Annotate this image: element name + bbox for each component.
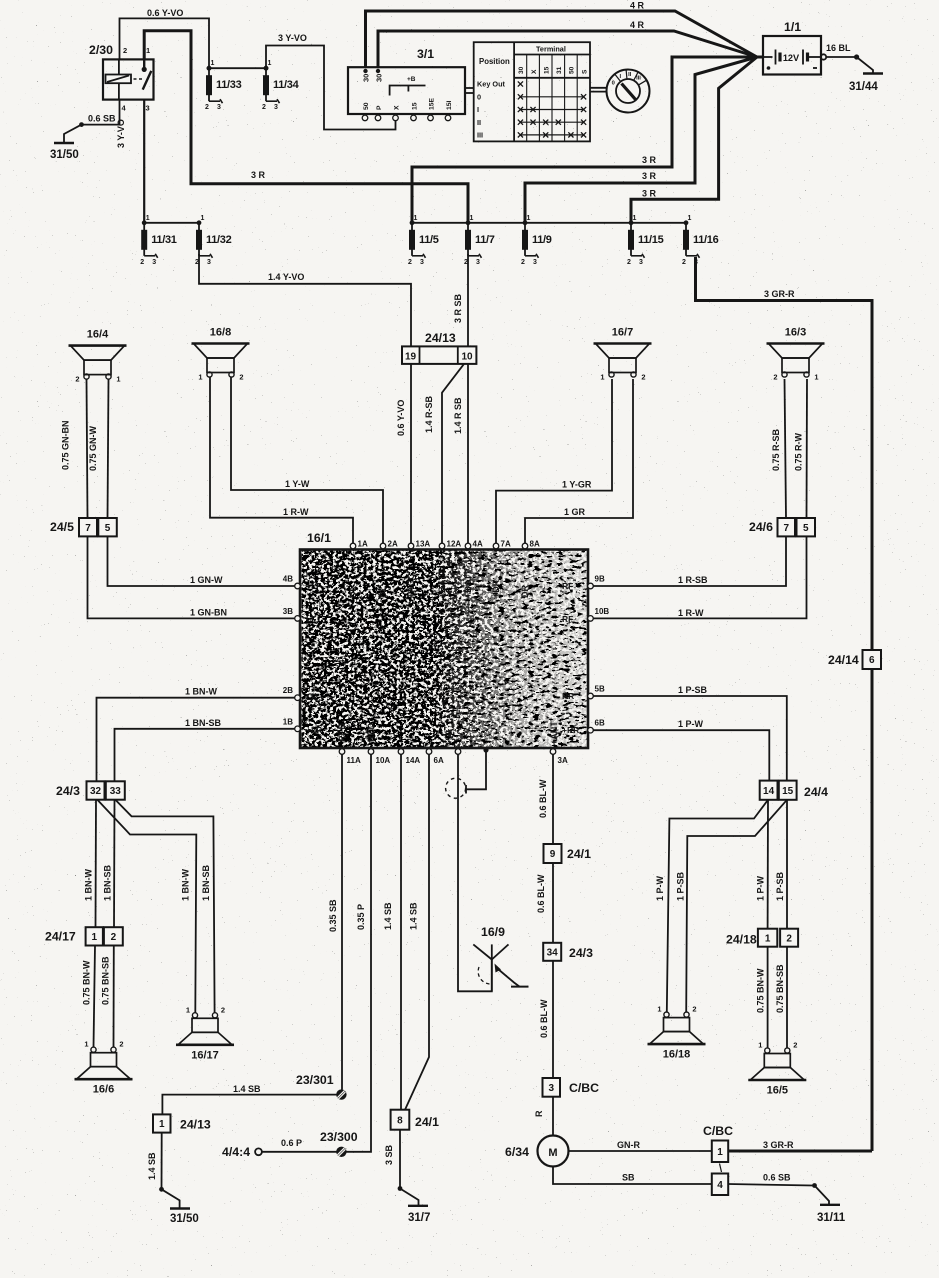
- svg-text:+BATT: +BATT: [463, 569, 473, 598]
- wire 1 P-SB radio 5B to connector 24/4 pin15: [591, 696, 787, 781]
- svg-text:15I: 15I: [446, 100, 453, 110]
- svg-text:0.6 Y-VO: 0.6 Y-VO: [396, 400, 406, 436]
- svg-text:10A: 10A: [376, 756, 391, 765]
- wire 1 BN-SB radio 1B to connector 24/3 pin33: [115, 729, 298, 782]
- svg-text:3 R: 3 R: [251, 170, 266, 180]
- wire GN-R motor 6/34 to C/BC pin1: [568, 1150, 712, 1152]
- svg-text:3: 3: [548, 1083, 554, 1094]
- svg-text:5B: 5B: [595, 685, 605, 694]
- svg-text:11/31: 11/31: [151, 234, 177, 246]
- svg-text:1/1: 1/1: [784, 20, 801, 34]
- wire 1 GR speaker 16/7 pin2 to radio 8A: [525, 379, 633, 546]
- svg-text:15: 15: [782, 786, 794, 797]
- svg-text:15E: 15E: [429, 97, 436, 110]
- svg-text:3 SB: 3 SB: [384, 1144, 394, 1165]
- fuse 11/9: [521, 215, 552, 266]
- wire 0.75 R-SB speaker 16/3 pin2 to connector 24/6 pin7: [785, 379, 787, 518]
- svg-text:3: 3: [274, 104, 278, 111]
- svg-text:30: 30: [362, 74, 371, 82]
- svg-text:7A: 7A: [501, 540, 511, 549]
- svg-text:X: X: [394, 105, 401, 110]
- svg-text:3 R: 3 R: [642, 189, 657, 199]
- svg-text:7: 7: [85, 523, 91, 534]
- svg-text:1: 1: [688, 215, 692, 222]
- svg-text:+ANT: +ANT: [549, 721, 559, 745]
- svg-text:RED: RED: [366, 722, 376, 742]
- svg-text:1.4 SB: 1.4 SB: [383, 902, 393, 930]
- wire 1 BN-W connector 24/3 pin32 branch to speaker 16/17 pin1: [97, 799, 196, 1012]
- svg-text:24/18: 24/18: [726, 933, 757, 947]
- svg-text:31/11: 31/11: [817, 1212, 846, 1224]
- ground 31/44: [863, 72, 883, 74]
- svg-text:1: 1: [527, 215, 531, 222]
- svg-text:3: 3: [217, 104, 221, 111]
- svg-text:16/9: 16/9: [481, 925, 505, 939]
- wire 1.4 Y-VO fuse 11/32 to radio pin 13A: [199, 254, 411, 346]
- svg-text:1: 1: [146, 46, 150, 55]
- svg-text:3 R: 3 R: [642, 171, 657, 181]
- svg-text:2: 2: [123, 46, 127, 55]
- wire 0.75 R-W speaker 16/3 pin1 to connector 24/6 pin5: [806, 379, 809, 518]
- svg-text:11/7: 11/7: [475, 234, 495, 246]
- svg-text:1.4 SB: 1.4 SB: [147, 1152, 157, 1180]
- svg-text:5: 5: [803, 523, 809, 534]
- svg-text:12V: 12V: [783, 53, 800, 63]
- svg-text:11/5: 11/5: [419, 234, 439, 246]
- svg-text:III: III: [477, 131, 483, 140]
- svg-text:0.6 BL-W: 0.6 BL-W: [539, 999, 549, 1038]
- wire 1 Y-W speaker 16/8 pin2 to radio 2A: [231, 377, 383, 546]
- svg-text:+LF: +LF: [306, 581, 321, 591]
- thick wire 4 R battery to ignition 3/1 pin30 b: [378, 31, 757, 67]
- svg-text:0.75 BN-SB: 0.75 BN-SB: [775, 964, 785, 1013]
- wire fuse 11/31 to 11/32 pin1: [144, 222, 199, 224]
- svg-text:0.75 BN-W: 0.75 BN-W: [756, 968, 766, 1013]
- thick wire 3 R battery to fuse 11/5: [412, 57, 763, 223]
- svg-text:4B: 4B: [283, 575, 293, 584]
- svg-text:1 BN-W: 1 BN-W: [84, 868, 94, 901]
- svg-text:24/1: 24/1: [415, 1115, 439, 1129]
- svg-text:16/4: 16/4: [87, 329, 109, 341]
- svg-text:31: 31: [556, 66, 563, 74]
- svg-text:3: 3: [152, 259, 156, 266]
- svg-text:0.75 BN-W: 0.75 BN-W: [82, 960, 92, 1005]
- wire 0.6 Y-VO connector 24/13 pin19 to radio 13A: [410, 364, 412, 546]
- wire 3 GR-R fuse 11/16 down right side to C/BC: [696, 257, 873, 1151]
- wire 1 R-SB connector 24/6 pin7 to radio 9B: [591, 536, 786, 586]
- svg-text:24/13: 24/13: [425, 331, 456, 345]
- svg-text:3A: 3A: [558, 756, 568, 765]
- svg-text:DL: DL: [348, 586, 358, 598]
- wire 1 P-W connector 24/4 pin14 branch to speaker 16/18 pin1: [667, 800, 768, 1012]
- svg-text:1: 1: [657, 1005, 661, 1014]
- svg-text:0: 0: [612, 81, 615, 87]
- svg-text:4 R: 4 R: [630, 20, 645, 30]
- svg-text:1: 1: [159, 1119, 165, 1130]
- svg-text:1 BN-SB: 1 BN-SB: [103, 864, 113, 901]
- fuse 11/31: [140, 215, 177, 266]
- svg-text:33: 33: [110, 786, 122, 797]
- svg-text:24/3: 24/3: [569, 946, 593, 960]
- svg-text:1 P-W: 1 P-W: [655, 875, 665, 901]
- wire radio to antenna connector stub: [466, 750, 486, 789]
- svg-text:15: 15: [544, 66, 551, 74]
- svg-text:2/30: 2/30: [89, 43, 113, 57]
- svg-text:3 GR-R: 3 GR-R: [764, 289, 795, 299]
- wire 1 BN-SB connector 24/3 pin33 to 24/17 pin2: [113, 799, 116, 927]
- svg-text:3: 3: [533, 259, 537, 266]
- svg-text:1: 1: [600, 373, 604, 382]
- ignition key symbol: [590, 70, 650, 113]
- svg-text:16/1: 16/1: [307, 531, 331, 545]
- wire 1.4 SB radio 6A to connector 24/1 pin8: [405, 752, 429, 1110]
- svg-text:6B: 6B: [595, 719, 605, 728]
- svg-text:12A: 12A: [447, 540, 462, 549]
- wire 0.75 BN-W connector 24/18 pin1 to speaker 16/5 pin1: [767, 947, 769, 1048]
- thick wire 3 R battery to fuse 11/9: [525, 57, 757, 223]
- thick wire 3 R battery to fuse 11/15: [631, 57, 757, 223]
- svg-text:3: 3: [146, 104, 150, 113]
- svg-text:GN-R: GN-R: [617, 1140, 640, 1150]
- svg-text:2B: 2B: [283, 686, 293, 695]
- svg-text:LF: LF: [306, 614, 316, 624]
- optional connector dashed circle: [446, 778, 466, 798]
- ground 31/7: [408, 1205, 428, 1207]
- svg-text:24/4: 24/4: [804, 785, 828, 799]
- svg-text:32: 32: [90, 786, 102, 797]
- svg-text:11/33: 11/33: [216, 79, 242, 91]
- svg-text:4A: 4A: [473, 540, 483, 549]
- svg-text:1: 1: [470, 215, 474, 222]
- svg-text:19: 19: [405, 352, 417, 363]
- svg-text:+RR: +RR: [562, 725, 579, 735]
- svg-text:1: 1: [116, 375, 120, 384]
- svg-text:3 R: 3 R: [642, 155, 657, 165]
- relay 2/30: [89, 43, 154, 113]
- speaker 16/3: [767, 327, 825, 382]
- svg-text:4 R: 4 R: [630, 1, 645, 11]
- svg-text:24/1: 24/1: [567, 847, 591, 861]
- wire 3 SB connector 24/1 pin8 to ground 31/7: [399, 1130, 401, 1189]
- fuse 11/34: [262, 60, 300, 111]
- svg-text:2: 2: [641, 373, 645, 382]
- svg-text:10B: 10B: [595, 607, 610, 616]
- svg-text:23/301: 23/301: [296, 1073, 334, 1087]
- speaker 16/4: [69, 329, 127, 384]
- svg-text:15: 15: [412, 102, 419, 110]
- wire 0.75 BN-SB connector 24/17 pin2 to speaker 16/6 pin2: [113, 946, 115, 1048]
- svg-text:1A: 1A: [358, 540, 368, 549]
- svg-text:1.4 SB: 1.4 SB: [233, 1084, 261, 1094]
- svg-text:3B: 3B: [283, 607, 293, 616]
- wire 1.4 R SB connector 24/13 pin10 to radio 4A: [467, 364, 469, 546]
- svg-text:5: 5: [105, 523, 111, 534]
- svg-text:24/13: 24/13: [180, 1118, 211, 1132]
- wire 1.4 SB connector 24/13 to ground 31/50: [161, 1133, 163, 1190]
- wire 3 Y-VO relay pin3 down to fuse 11/31: [143, 100, 145, 223]
- svg-text:C/BC: C/BC: [569, 1081, 599, 1095]
- thick wire 4 R battery to ignition 3/1 pin30 a: [366, 11, 758, 67]
- svg-text:0.6 BL-W: 0.6 BL-W: [538, 779, 548, 818]
- svg-text:R: R: [534, 1110, 544, 1117]
- svg-text:1 Y-GR: 1 Y-GR: [562, 480, 592, 490]
- svg-text:2: 2: [521, 259, 525, 266]
- svg-text:1 Y-W: 1 Y-W: [285, 479, 310, 489]
- svg-text:1 BN-W: 1 BN-W: [181, 868, 191, 901]
- svg-text:1 BN-W: 1 BN-W: [185, 687, 218, 697]
- svg-text:1: 1: [146, 215, 150, 222]
- svg-text:16/18: 16/18: [663, 1049, 691, 1061]
- svg-text:24/6: 24/6: [749, 520, 773, 534]
- svg-text:P: P: [376, 105, 383, 110]
- svg-text:1 GR: 1 GR: [564, 507, 586, 517]
- svg-text:11/16: 11/16: [693, 234, 719, 246]
- svg-text:16/8: 16/8: [210, 327, 231, 339]
- svg-text:11/9: 11/9: [532, 234, 552, 246]
- svg-text:1: 1: [414, 215, 418, 222]
- wire 1.4 SB splice 23/301 to connector 24/13 pin1: [162, 1095, 336, 1115]
- svg-text:RF: RF: [562, 614, 573, 624]
- svg-text:9B: 9B: [595, 575, 605, 584]
- svg-text:0.75 GN-BN: 0.75 GN-BN: [61, 420, 71, 470]
- svg-text:1 BN-SB: 1 BN-SB: [185, 718, 222, 728]
- motor 6/34: [505, 1136, 569, 1167]
- svg-text:24/17: 24/17: [45, 930, 76, 944]
- svg-text:Position: Position: [479, 57, 510, 66]
- svg-text:0.6 P: 0.6 P: [281, 1138, 302, 1148]
- svg-text:0.75 GN-W: 0.75 GN-W: [88, 425, 98, 471]
- svg-text:31/7: 31/7: [408, 1212, 430, 1224]
- wire 0.6 BL-W radio 3A to connector 24/1 pin9: [552, 752, 554, 844]
- svg-text:11/34: 11/34: [273, 79, 300, 91]
- fuse 11/32: [195, 215, 232, 266]
- fuse 11/16: [682, 215, 719, 266]
- svg-text:2: 2: [627, 259, 631, 266]
- wire 1.4 SB radio 14A to connector 24/1 pin8: [400, 752, 402, 1110]
- svg-text:31/44: 31/44: [849, 81, 878, 93]
- svg-text:Terminal: Terminal: [536, 45, 566, 54]
- svg-text:1 P-SB: 1 P-SB: [676, 871, 686, 901]
- svg-text:1: 1: [765, 933, 771, 944]
- svg-text:4: 4: [717, 1180, 723, 1191]
- svg-text:M: M: [548, 1147, 557, 1159]
- svg-text:3: 3: [207, 259, 211, 266]
- svg-text:I: I: [477, 105, 479, 114]
- antenna 16/9: [473, 925, 528, 991]
- svg-text:Key Out: Key Out: [477, 80, 506, 89]
- wire R C/BC pin3 to motor 6/34: [552, 1097, 554, 1136]
- svg-text:24/3: 24/3: [56, 784, 80, 798]
- splice 23/301: [336, 1089, 346, 1099]
- speaker 16/8: [192, 327, 250, 382]
- wire 1 P-W radio 6B to connector 24/4 pin14: [591, 730, 769, 780]
- wire 0.35 SB radio 11A to splice 23/301: [341, 752, 343, 1090]
- svg-text:2: 2: [75, 375, 79, 384]
- wire 1 BN-W connector 24/3 pin32 to 24/17 pin1: [95, 799, 98, 927]
- svg-text:6A: 6A: [434, 756, 444, 765]
- wire 0.6 BL-W connector 24/3 pin34 to C/BC pin3: [552, 961, 554, 1078]
- svg-text:DR: DR: [520, 585, 530, 598]
- svg-text:1: 1: [268, 60, 272, 67]
- svg-text:1: 1: [201, 215, 205, 222]
- svg-text:3: 3: [639, 259, 643, 266]
- svg-text:S: S: [581, 69, 588, 74]
- svg-text:31/50: 31/50: [170, 1213, 199, 1225]
- svg-text:14A: 14A: [406, 756, 421, 765]
- svg-text:0.75 BN-SB: 0.75 BN-SB: [101, 956, 111, 1005]
- svg-text:0.75 R-SB: 0.75 R-SB: [771, 428, 781, 471]
- svg-text:6/34: 6/34: [505, 1145, 529, 1159]
- wire 3 R SB fuse 11/7 to connector 24/13 pin10: [467, 254, 469, 346]
- svg-text:1B: 1B: [283, 717, 293, 726]
- svg-text:2: 2: [195, 259, 199, 266]
- svg-text:3 R SB: 3 R SB: [453, 293, 463, 323]
- svg-text:0.6 SB: 0.6 SB: [88, 114, 116, 124]
- svg-text:+B: +B: [407, 76, 416, 83]
- wire 1 Y-GR speaker 16/7 pin1 to radio 7A: [496, 379, 612, 546]
- wire 1 GN-BN connector 24/5 pin7 to radio 3B: [88, 536, 298, 618]
- ignition position table: [474, 42, 590, 141]
- wire 0.6 Y-VO relay pin2 to fuse 11/33: [120, 18, 210, 68]
- svg-text:1: 1: [633, 215, 637, 222]
- ground 31/50 bottom: [170, 1207, 190, 1209]
- svg-text:0.35 SB: 0.35 SB: [328, 899, 338, 932]
- svg-text:9: 9: [550, 849, 556, 860]
- fuse 11/7: [464, 215, 495, 266]
- svg-text:III: III: [636, 76, 641, 82]
- wire 0.6 SB C/BC pin4 to ground 31/11: [728, 1184, 813, 1186]
- wire 0.35 P radio 10A to splice 23/300: [346, 752, 371, 1152]
- wire 0.6 SB relay pin4 to ground 31/50: [82, 100, 120, 125]
- svg-text:1.4 R SB: 1.4 R SB: [453, 397, 463, 434]
- svg-text:1 BN-SB: 1 BN-SB: [201, 864, 211, 901]
- battery 1/1: [763, 20, 826, 75]
- speaker 16/5: [748, 1041, 806, 1097]
- wire 1 P-SB connector 24/4 pin15 branch to speaker 16/18 pin2: [686, 800, 787, 1012]
- svg-text:3 Y-VO: 3 Y-VO: [116, 119, 126, 148]
- svg-text:24/5: 24/5: [50, 520, 74, 534]
- svg-text:8A: 8A: [530, 540, 540, 549]
- link ignition table to key: [590, 87, 607, 89]
- svg-text:31/50: 31/50: [50, 149, 79, 161]
- svg-text:16/3: 16/3: [785, 327, 806, 339]
- svg-text:+DR: +DR: [491, 579, 501, 598]
- svg-text:1 GN-W: 1 GN-W: [190, 575, 223, 585]
- svg-text:1 P-W: 1 P-W: [678, 719, 704, 729]
- wire 1 P-SB connector 24/4 pin15 to 24/18 pin2: [786, 800, 788, 929]
- svg-text:+ACC: +ACC: [406, 573, 416, 598]
- wire 1 R-W connector 24/6 pin5 to radio 10B: [591, 536, 807, 618]
- wire 1 GN-W connector 24/5 pin5 to radio 4B: [108, 536, 298, 586]
- svg-text:1: 1: [186, 1005, 190, 1014]
- svg-text:2: 2: [682, 259, 686, 266]
- svg-text:30: 30: [518, 66, 525, 74]
- svg-text:34: 34: [547, 947, 559, 958]
- fuse 11/5: [408, 215, 439, 266]
- radio 16/1 with noise: [283, 531, 610, 765]
- svg-text:1: 1: [717, 1147, 723, 1158]
- svg-text:10: 10: [461, 352, 473, 363]
- svg-text:+BATT: +BATT: [437, 569, 447, 598]
- svg-text:1 P-SB: 1 P-SB: [678, 685, 708, 695]
- wire 1 BN-W radio 2B to connector 24/3 pin32: [97, 698, 298, 782]
- svg-text:II: II: [477, 118, 481, 127]
- svg-text:11A: 11A: [347, 756, 361, 765]
- svg-text:1: 1: [758, 1041, 762, 1050]
- svg-text:RF: RF: [562, 581, 573, 591]
- svg-text:RR: RR: [562, 691, 574, 701]
- svg-text:3: 3: [420, 259, 424, 266]
- svg-text:1 GN-BN: 1 GN-BN: [190, 608, 227, 618]
- wire radio to antenna 16/9: [458, 752, 492, 991]
- svg-text:1 R-W: 1 R-W: [283, 507, 309, 517]
- speaker 16/18: [648, 1005, 706, 1061]
- svg-text:DL: DL: [378, 586, 388, 598]
- svg-text:2: 2: [239, 373, 243, 382]
- svg-text:1 R-SB: 1 R-SB: [678, 575, 708, 585]
- svg-text:0: 0: [477, 93, 481, 102]
- ignition switch 3/1: [348, 47, 474, 121]
- svg-text:2: 2: [786, 933, 792, 944]
- svg-text:C/BC: C/BC: [703, 1124, 733, 1138]
- wire 1.4 R-SB connector 24/13 pin10 to radio 12A: [442, 364, 464, 546]
- fuse 11/33: [205, 60, 242, 111]
- speaker 16/17: [176, 1005, 234, 1061]
- svg-text:1 P-W: 1 P-W: [756, 875, 766, 901]
- connector 24/13 19-10: [402, 331, 476, 364]
- svg-text:3/1: 3/1: [417, 47, 434, 61]
- svg-text:16/7: 16/7: [612, 327, 633, 339]
- fuse 11/15: [627, 215, 664, 266]
- svg-text:2: 2: [793, 1041, 797, 1050]
- wire 0.6 BL-W connector 24/1 pin9 to 24/3 pin34: [552, 863, 554, 943]
- svg-text:0.6 SB: 0.6 SB: [763, 1173, 791, 1183]
- svg-text:2: 2: [205, 104, 209, 111]
- svg-text:11/32: 11/32: [206, 234, 232, 246]
- svg-text:1 P-SB: 1 P-SB: [775, 871, 785, 901]
- thick wire 3 GR-R C/BC pin1 to right riser: [728, 1150, 872, 1153]
- connector C/BC 1-4: [703, 1124, 733, 1195]
- svg-text:2: 2: [692, 1005, 696, 1014]
- svg-text:0.6 Y-VO: 0.6 Y-VO: [147, 8, 183, 18]
- svg-text:3 Y-VO: 3 Y-VO: [278, 33, 307, 43]
- svg-text:16/17: 16/17: [191, 1049, 219, 1061]
- svg-text:4/4:4: 4/4:4: [222, 1145, 250, 1159]
- svg-text:2: 2: [221, 1005, 225, 1014]
- svg-text:1: 1: [211, 60, 215, 67]
- svg-text:1.4 R-SB: 1.4 R-SB: [424, 395, 434, 433]
- svg-text:II: II: [628, 72, 632, 78]
- svg-text:7: 7: [783, 523, 789, 534]
- svg-text:0.75 R-W: 0.75 R-W: [794, 432, 804, 471]
- wire 0.75 GN-BN speaker 16/4 pin2 to connector 24/5 pin7: [87, 379, 88, 518]
- svg-text:0.35 P: 0.35 P: [356, 904, 366, 930]
- svg-text:1: 1: [198, 373, 202, 382]
- speaker 16/6: [75, 1040, 133, 1096]
- svg-text:11/15: 11/15: [638, 234, 664, 246]
- svg-text:2: 2: [111, 932, 117, 943]
- svg-text:2A: 2A: [388, 540, 398, 549]
- svg-text:24/14: 24/14: [828, 653, 859, 667]
- wire 1 BN-SB connector 24/3 pin33 branch to speaker 16/17 pin2: [115, 799, 215, 1012]
- splice 23/300: [336, 1147, 346, 1157]
- svg-text:2: 2: [773, 373, 777, 382]
- svg-text:16/6: 16/6: [93, 1084, 114, 1096]
- svg-text:0.6 BL-W: 0.6 BL-W: [536, 874, 546, 913]
- wire 0.75 BN-W connector 24/17 pin1 to speaker 16/6 pin1: [94, 946, 96, 1048]
- svg-text:3: 3: [694, 259, 698, 266]
- wire 0.6 P splice 23/300 to 4/4:4: [262, 1151, 337, 1153]
